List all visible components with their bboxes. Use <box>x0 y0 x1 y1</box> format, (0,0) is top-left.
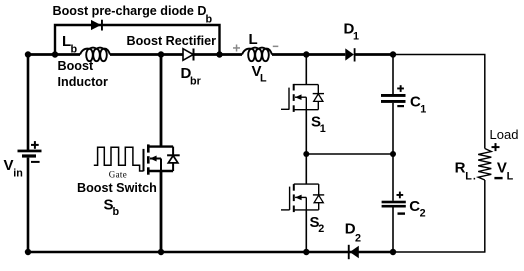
label D2 <box>345 221 361 245</box>
inductor Lb coil <box>80 48 110 62</box>
wire pre-charge branch <box>55 25 220 55</box>
node midpoint right <box>390 151 396 157</box>
resistor RL zigzag <box>478 149 491 181</box>
wire main top horizontal left segment <box>28 53 80 56</box>
node C1 rail on main wire <box>390 51 396 57</box>
label C2 <box>409 198 425 220</box>
svg-text:Gate: Gate <box>109 170 127 180</box>
label Boost pre-charge diode Db <box>53 4 213 25</box>
svg-text:Load: Load <box>490 127 519 142</box>
node S1 rail on main wire <box>303 51 309 57</box>
svg-text:L: L <box>465 171 472 183</box>
wire S-cell rail top <box>305 55 307 85</box>
battery minus sign <box>31 161 40 163</box>
label Vin <box>4 157 23 180</box>
wire right rail upper <box>484 55 486 149</box>
svg-text:Boost Rectifier: Boost Rectifier <box>127 34 217 48</box>
inductor L coil <box>242 48 272 62</box>
svg-text:br: br <box>190 75 202 87</box>
label VL at load <box>497 159 514 182</box>
node C2 rail on bottom wire <box>390 249 396 255</box>
node boost switch on main wire <box>158 51 164 57</box>
svg-text:1: 1 <box>320 123 326 135</box>
node S2 rail on bottom wire <box>303 249 309 255</box>
wire C rail top <box>392 55 394 95</box>
node bottom left corner <box>25 249 31 255</box>
diode D1 (filled) <box>345 48 355 61</box>
label plus at load <box>492 146 500 148</box>
label Boost Inductor <box>58 59 108 89</box>
svg-text:b: b <box>71 44 78 56</box>
transistor S2 MOSFET <box>281 184 324 212</box>
wire right rail lower <box>484 180 486 252</box>
label S2 <box>310 214 325 235</box>
label D1 <box>344 21 360 43</box>
node midpoint left <box>303 151 309 157</box>
label RL <box>455 159 476 182</box>
wire S-cell rail S2 source to bottom <box>305 210 307 252</box>
label minus at C1 <box>397 105 404 107</box>
diode Dbr (boost rectifier, open) <box>183 49 194 61</box>
node pre-charge right on main wire <box>216 51 222 57</box>
wire C rail C2 to bottom <box>392 208 394 253</box>
svg-text:V: V <box>4 157 14 174</box>
capacitor C1 <box>381 94 406 103</box>
svg-text:1: 1 <box>353 31 359 43</box>
wire S-cell rail S1 source to midpoint <box>305 110 307 154</box>
label minus at L <box>273 46 279 48</box>
wire left rail upper <box>27 55 30 151</box>
wire main top horizontal mid segment <box>110 53 183 56</box>
wire left rail lower <box>27 158 30 252</box>
label S1 <box>311 114 326 135</box>
label Dbr <box>181 65 202 87</box>
svg-text:1: 1 <box>420 103 426 115</box>
label plus at C1 <box>397 88 404 90</box>
svg-text:Inductor: Inductor <box>58 75 108 89</box>
svg-text:Boost pre-charge diode D: Boost pre-charge diode D <box>53 4 207 18</box>
svg-text:2: 2 <box>355 232 361 244</box>
label Sb <box>104 196 120 218</box>
label VL under L <box>252 63 268 85</box>
transistor Sb (boost switch MOSFET) <box>144 144 180 174</box>
label C1 <box>410 94 426 116</box>
label plus at L <box>233 47 240 49</box>
wire boost-switch rail upper <box>160 55 163 148</box>
svg-text:in: in <box>13 168 23 180</box>
capacitor C2 <box>382 201 406 208</box>
wire main top horizontal right thin segment <box>393 54 486 56</box>
svg-text:L: L <box>260 73 267 85</box>
diode Db (pre-charge, filled) <box>91 20 103 31</box>
battery plus sign <box>31 144 39 146</box>
wire boost-switch rail lower <box>160 171 163 253</box>
transistor S1 MOSFET <box>281 84 324 112</box>
label Lb <box>62 33 78 56</box>
wire main top horizontal segment after Dbr <box>195 53 243 56</box>
node at main-wire left corner <box>25 51 31 57</box>
label minus at load <box>494 177 502 179</box>
svg-text:V: V <box>497 159 507 176</box>
svg-text:2: 2 <box>318 223 324 235</box>
label minus at C2 <box>398 212 406 214</box>
battery Vin bottom plate <box>22 154 36 157</box>
svg-text:b: b <box>113 206 120 218</box>
wire C rail midpoint to C2 <box>392 154 394 201</box>
svg-text:L: L <box>507 171 514 183</box>
battery Vin top plate <box>18 150 42 153</box>
wire bottom rail <box>28 251 393 253</box>
svg-text:R: R <box>455 159 466 176</box>
svg-text:.: . <box>473 171 476 183</box>
node boost switch on bottom wire <box>158 249 164 255</box>
svg-text:L: L <box>249 31 258 48</box>
svg-text:Boost: Boost <box>58 59 94 73</box>
wire main top horizontal segment D1 to C1 node <box>356 53 394 56</box>
wire bottom rail right thin <box>393 251 486 253</box>
node pre-charge left on main wire <box>52 51 58 57</box>
svg-text:b: b <box>206 14 213 26</box>
svg-text:Boost Switch: Boost Switch <box>77 181 157 195</box>
wire midpoint horizontal <box>306 153 393 155</box>
diode D2 (filled, pointing left) <box>348 245 359 259</box>
wire C rail C1 to midpoint <box>392 103 394 154</box>
svg-text:2: 2 <box>420 208 426 220</box>
gate drive square wave <box>94 147 144 171</box>
label plus at C2 <box>397 194 404 196</box>
wire main top horizontal segment after L <box>272 53 345 56</box>
wire S-cell rail midpoint to S2 <box>305 154 307 184</box>
